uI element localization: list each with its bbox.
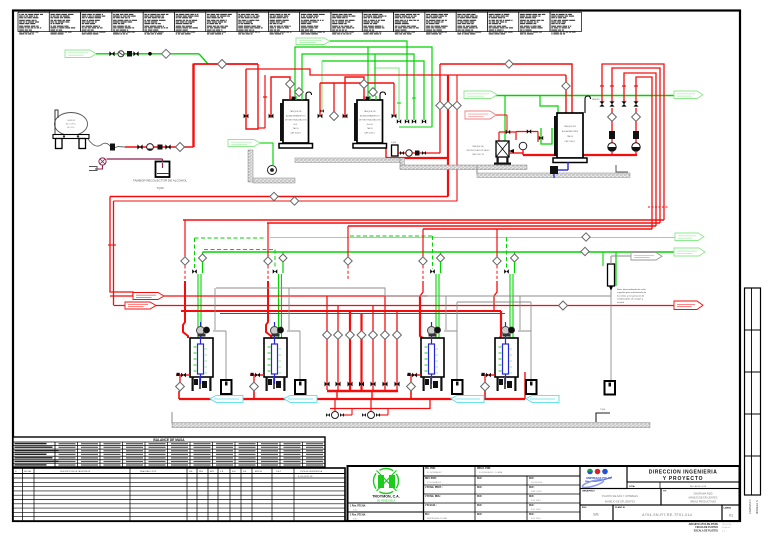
planta box [580,489,661,506]
instrument diamond [436,101,444,109]
tank3 base [553,158,587,163]
svg-text:BALANCE DE MASA: BALANCE DE MASA [153,438,185,442]
instrument diamond [511,254,519,262]
purple recovery line [107,158,163,160]
wire manifold line x327 [326,296,328,390]
wire red drop x268 [267,223,269,257]
wire red drop x423 [422,229,424,257]
wire green supply line [96,53,199,55]
svg-text:01: 01 [729,514,733,518]
agitator bar [280,103,282,141]
svg-text:REV. POR:: REV. POR: [425,478,437,480]
svg-text:TF01-01d: TF01-01d [722,524,732,526]
lone drum right [605,381,616,395]
gray vapor loop [213,330,226,332]
wire [410,391,412,399]
tank3 red loop left [499,132,516,140]
pump [608,143,616,151]
wire [385,148,387,158]
tank3 blue drain [567,162,569,170]
svg-text:ESC:: ESC: [582,507,587,509]
wire [393,83,395,116]
valve [395,382,400,387]
valve [621,101,626,106]
top notes strip [18,12,49,31]
svg-text:CAP 5000 L: CAP 5000 L [364,132,376,135]
valve [400,151,404,155]
svg-text:FEC:: FEC: [477,478,483,480]
arrowhead [509,149,514,153]
wire red drop x497 [496,229,498,257]
wire red drop x185 [184,220,186,257]
wire bright green corner [514,252,516,254]
svg-text:TIT:: TIT: [663,491,667,493]
red tick [622,85,626,87]
wire green drop tank3 [540,96,558,113]
svg-text:RECIRCULACION TAL40: RECIRCULACION TAL40 [467,149,491,152]
svg-text:TROYMON, C.A.: TROYMON, C.A. [372,495,400,499]
red feed stub [289,96,291,100]
strainer S1 [127,51,132,57]
manifold bottom bar [327,390,398,392]
green sparge marks [425,346,428,348]
wire branch x636 [635,108,637,143]
svg-text:TANQUE DE: TANQUE DE [290,110,303,113]
svg-text:V B GCIA.:: V B GCIA.: [425,504,437,507]
valve [325,382,330,387]
instrument diamond FI-1 [162,49,171,58]
wire pale green x322 [321,61,323,110]
hand pump [99,158,106,165]
pump in trench [268,166,277,175]
svg-text:MANEJO DE EFLUENTES: MANEJO DE EFLUENTES [689,497,718,500]
red bundle headers middle [183,219,664,221]
wire thick tank3 base [523,154,637,156]
truck discharge line [125,146,194,148]
tank at x357 [357,100,383,143]
green sparge marks [499,346,502,348]
agitator bar [354,103,356,141]
svg-text:R.GONZALEZ / J.LARA: R.GONZALEZ / J.LARA [479,471,503,474]
svg-text:MODELO N: MODELO N [755,500,759,514]
svg-text:AREAS PRODUCTIVAS: AREAS PRODUCTIVAS [690,501,716,504]
svg-text:FECHA: FECHA [24,470,31,473]
blue column [429,344,435,374]
valve [165,144,170,149]
valve [348,382,353,387]
wire [484,391,486,399]
strainer [415,151,420,156]
svg-text:DIRECCION INGENIERIA: DIRECCION INGENIERIA [649,470,718,476]
wire red long y201 [114,200,458,202]
wire red drop solid u1 [183,281,188,338]
wire red riser x193 [192,64,194,148]
bottom fittings [499,379,503,385]
hose [88,139,125,148]
wire green U loop [541,128,552,144]
svg-text:DIS. POR:: DIS. POR: [425,468,436,470]
svg-text:R. GONZALEZ: R. GONZALEZ [427,471,442,474]
svg-text:CAP 200 LTS: CAP 200 LTS [472,153,485,156]
trench main tank1-2 [295,158,400,163]
filter [609,131,615,139]
empresas polar logo box [580,466,627,489]
title block frame [348,466,740,521]
instrument diamond [357,331,366,340]
troymon logo [374,469,399,494]
wire green pair into reactor [278,274,280,338]
svg-text:TAL20: TAL20 [367,127,374,130]
wire red header y83 [320,82,394,84]
tank1 red loop [246,64,258,129]
svg-text:FEC:: FEC: [477,487,483,489]
flag L1 alcohol inlet [65,50,96,58]
svg-text:FEC:: FEC: [529,514,535,516]
valve [343,114,348,119]
svg-text:TANQUE DE: TANQUE DE [564,125,577,128]
svg-text:NaOH: NaOH [367,124,373,126]
drawing number box [613,505,722,521]
svg-text:DIBUJ. POR:: DIBUJ. POR: [477,468,491,470]
svg-text:2 Rev. FECHA:: 2 Rev. FECHA: [350,514,366,517]
feed valve assembly [407,374,421,376]
wire [113,201,115,305]
svg-text:S.N.: S.N. [353,519,357,521]
wire [179,375,181,382]
wire riser right [524,372,526,399]
svg-text:TQ50: TQ50 [391,142,397,144]
wire x440 drop [439,64,441,153]
flag R1 [133,293,164,300]
green exchanger feeds [602,252,604,266]
instrument diamond [250,382,259,391]
filter TQ50 [392,145,399,156]
blue column [503,344,509,374]
tank nozzles [292,97,296,100]
svg-text:TQ40: TQ40 [157,186,164,190]
wire [330,41,407,120]
condensate drum [526,380,537,394]
instrument diamond [437,254,445,262]
reactor unit u3 vessel [421,338,444,377]
wire tank2 inlet [345,77,364,118]
legs [497,377,499,391]
wire green header tank3 y96 [478,95,674,97]
flag L4 green [464,91,497,99]
red ties [648,206,668,208]
wire red drop dashed u3 [420,281,423,296]
wire green dashed drop x280 [274,250,276,270]
wire green header y54 [302,54,414,120]
lamina box [722,505,740,521]
instrument diamond [562,82,570,90]
valve [244,114,249,119]
svg-text:GCIA:: GCIA: [629,485,635,488]
svg-text:CAP 5000 L: CAP 5000 L [290,132,302,135]
pump P10 [332,412,339,419]
wire branch x612 [611,108,613,143]
condensate drum [295,380,306,394]
feed valve assembly [481,374,495,376]
svg-text:OBRA/PROY:: OBRA/PROY: [582,490,595,493]
tank3 body TAL50 [557,113,583,158]
instrument diamond [407,382,416,391]
flag L6 green right [674,248,705,256]
wire green drop TAL40 [504,96,506,143]
valve [633,101,638,106]
alcohol drum TQ40 [156,162,170,178]
recirculation vessel TAL40 [496,141,509,157]
blue column [198,344,204,374]
scale box [580,505,613,521]
agitator motor [271,327,279,335]
svg-text:CAP 2000 L: CAP 2000 L [564,140,576,143]
tank at x283 [283,100,309,143]
red tick [610,85,614,87]
instrument diamond [505,60,513,68]
valve [609,101,614,106]
reactor unit u4 vessel [495,338,518,377]
wire bright green corner [440,252,442,254]
cyan tag flag [210,395,243,402]
tank2 bottom thick line [386,157,448,159]
svg-text:AL 96%: AL 96% [67,126,74,129]
wire red drop dashed u4 [494,281,497,311]
wire green pair into reactor [509,274,511,338]
wire manifold line x397 [396,311,398,390]
svg-text:1 Rev. FECHA:: 1 Rev. FECHA: [350,505,366,508]
wire [333,83,335,112]
direccion box [627,466,740,482]
wire green dashed y238 [195,237,267,239]
svg-text:FEC:: FEC: [529,505,535,507]
green valve row [397,119,401,123]
valve [359,382,364,387]
cyan tag flag [526,395,559,402]
pump P5 [406,150,412,156]
instrument diamond [632,113,641,122]
green sparge marks [194,346,197,348]
heat exchanger E1 [608,264,615,286]
wire [510,152,523,154]
instrument diamond [323,331,332,340]
gray vapor loop [287,330,300,332]
svg-text:REALIZADO POR: REALIZADO POR [140,470,157,473]
wire [398,152,440,154]
gray vent header [216,288,611,296]
wire manifold line x385 [384,296,386,390]
valve [430,269,435,274]
svg-text:EMPRESAS POLAR: EMPRESAS POLAR [427,517,448,520]
svg-text:FEC:: FEC: [477,496,483,498]
svg-text:REV: REV [199,471,204,473]
svg-text:V B ING. RES.:: V B ING. RES.: [425,496,441,498]
svg-text:DE VENEZUELA: DE VENEZUELA [377,500,396,503]
svg-text:PLANTA SALSAS Y UNTABLES: PLANTA SALSAS Y UNTABLES [602,495,638,498]
wire red header y64 [194,63,259,65]
svg-text:TANQUE DE: TANQUE DE [472,145,484,148]
svg-text:V B ING. PROY.:: V B ING. PROY.: [425,487,443,489]
svg-text:TAMBOR RECOLECTOR DE ALCOHOL: TAMBOR RECOLECTOR DE ALCOHOL [133,179,188,183]
red tick [634,85,638,87]
instrument diamond [346,331,355,340]
instrument diamond [581,247,589,255]
svg-text:FEC:: FEC: [477,505,483,507]
wire x265 [264,75,266,128]
svg-text:DE NEUTRALIZACION: DE NEUTRALIZACION [285,119,307,122]
filter [633,131,639,139]
valve V2 [133,51,138,56]
red tick [108,244,116,246]
instrument diamond [381,331,390,340]
wire green header y68 [375,68,399,120]
legs [266,377,268,391]
valve [137,144,142,149]
red tick [600,85,604,87]
instrument diamond [369,88,378,97]
gerencia row [627,482,740,489]
instrument diamond [199,254,207,262]
wire green dashed drop x511.5 [506,238,508,270]
bottom red manifold y399 [179,398,525,400]
svg-text:A-704-SN-RT-RE: A-704-SN-RT-RE [298,475,313,478]
valve V1 [109,51,114,56]
feed valve assembly [250,374,264,376]
agitator motor [428,327,436,335]
svg-text:LAMINA: LAMINA [724,507,732,510]
gray drop lone drum [610,296,612,381]
agitator motor [502,327,510,335]
svg-text:S.N.: S.N. [353,510,357,512]
svg-text:ALMACENAMIENTO: ALMACENAMIENTO [360,114,380,117]
wire x448 drop thick [447,75,449,197]
red 4-line vapor tops [602,64,664,220]
trench under tank1 [248,150,253,182]
wire green pair into reactor [435,274,437,338]
svg-text:MANEJO DE EFLUENTES: MANEJO DE EFLUENTES [605,501,635,504]
wire manifold line x338 [337,306,339,391]
svg-text:P/A:: P/A: [425,513,430,516]
bottom fittings [425,379,429,385]
valve [539,136,543,140]
svg-text:DE NEUTRALIZACION: DE NEUTRALIZACION [359,119,381,122]
wire [253,391,255,399]
pump P2 [147,144,154,151]
revision table [13,468,345,521]
wire green pair into reactor [197,274,199,338]
wire green dashed drop x437.5 [432,236,434,269]
svg-text:TAL50: TAL50 [567,135,574,138]
bottom fittings [194,379,198,385]
flag L5 green right [675,233,704,241]
svg-text:FEC:: FEC: [529,487,535,489]
bottom red y408 segment [330,399,430,409]
wire [484,375,486,382]
strainer [158,145,163,150]
svg-text:P. GONZALEZ: P. GONZALEZ [427,481,442,484]
wire red header y69 [246,69,566,75]
svg-text:PLANO N:: PLANO N: [615,506,625,509]
instrument diamond [279,254,287,262]
svg-text:LISTA DE REFERENCIA: LISTA DE REFERENCIA [300,470,323,473]
valve [336,382,341,387]
red band y311 [181,310,501,312]
flag L2 [296,38,330,45]
valve [506,130,510,134]
green feed stubs [369,96,371,100]
vent pipe [380,92,386,100]
condensate drum [221,380,232,394]
valve [371,382,376,387]
wire [516,131,538,133]
valve [192,269,197,274]
valve [269,114,274,119]
svg-text:VENTEO: VENTEO [592,99,600,101]
middle fields [423,466,425,521]
instrument diamond [393,331,402,340]
condensate drum [452,380,463,394]
svg-text:S.N. 2010: S.N. 2010 [531,509,542,511]
wire manifold line x350 [349,311,351,390]
svg-text:TANQUE DE: TANQUE DE [364,110,377,113]
valve [383,382,388,387]
reactor unit u2 vessel [264,338,287,377]
wire manifold line x373 [372,306,374,391]
svg-text:TAL10: TAL10 [293,127,300,130]
green flag to trench 1 [228,140,260,147]
pump drops [336,391,338,399]
svg-text:TQ60: TQ60 [600,409,606,411]
pump [632,143,640,151]
green feed stubs [295,96,297,100]
agitator motor [197,327,205,335]
svg-text:ALMACENAMIENTO: ALMACENAMIENTO [286,114,306,117]
svg-text:condensables de vinagre y: condensables de vinagre y [617,298,644,301]
red tick [263,96,267,98]
left red risers to flags [110,197,133,297]
pump P11 [368,412,375,419]
wire green dashed y249 [204,249,275,251]
wire green y127 [399,126,432,128]
svg-text:S.N. 2010: S.N. 2010 [531,500,542,502]
svg-text:S.N. 2010: S.N. 2010 [531,518,542,520]
trench end bracket [596,413,610,422]
instrument diamond [369,331,378,340]
instrument diamond [453,101,461,109]
tanker truck [55,113,88,136]
svg-text:ALCOHOL: ALCOHOL [66,122,77,125]
svg-text:FEC:: FEC: [477,514,483,516]
reactor unit u1 vessel [190,338,213,377]
gray vapor loop [518,330,531,332]
drain pump [550,166,558,174]
wire [178,391,180,399]
thick red drops unit3 unit4 [420,296,425,340]
gray drops to drums [214,288,216,330]
svg-text:ING. ALIM.-2010: ING. ALIM.-2010 [690,485,707,488]
svg-text:APR: APR [210,470,215,473]
flag R3 right end [674,301,703,310]
svg-text:Y PROYECTO: Y PROYECTO [663,476,704,482]
instrument diamond [334,331,343,340]
svg-text:Nota: Intercambiador de calor: Nota: Intercambiador de calor [617,288,646,291]
bottom fittings [268,379,272,385]
wire red drop solid u2 [266,281,271,338]
red feed stub [363,96,365,100]
instrument diamond [286,80,295,89]
wire x566 drop [565,75,567,113]
svg-text:DESCRIPCION DE LA REVISION: DESCRIPCION DE LA REVISION [60,470,91,473]
